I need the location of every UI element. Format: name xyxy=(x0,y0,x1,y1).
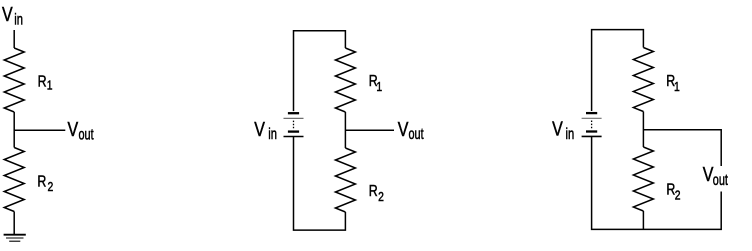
svg-text:1: 1 xyxy=(47,78,53,92)
svg-text:out: out xyxy=(409,125,424,143)
svg-text:1: 1 xyxy=(674,80,680,94)
svg-text:R: R xyxy=(38,72,47,90)
svg-text:R: R xyxy=(369,182,378,200)
svg-text:V: V xyxy=(398,118,409,140)
svg-text:V: V xyxy=(703,164,714,186)
svg-text:2: 2 xyxy=(675,188,681,202)
svg-text:out: out xyxy=(79,125,94,143)
svg-text:V: V xyxy=(552,118,563,140)
svg-text:1: 1 xyxy=(376,80,382,94)
svg-text:out: out xyxy=(713,171,728,189)
svg-text:2: 2 xyxy=(48,180,54,194)
svg-text:in: in xyxy=(14,10,23,29)
svg-text:in: in xyxy=(268,124,277,143)
svg-text:2: 2 xyxy=(378,190,384,204)
svg-text:V: V xyxy=(2,3,13,25)
svg-text:in: in xyxy=(566,124,575,143)
svg-text:R: R xyxy=(37,172,46,190)
svg-text:V: V xyxy=(254,118,265,140)
svg-text:V: V xyxy=(68,118,79,140)
